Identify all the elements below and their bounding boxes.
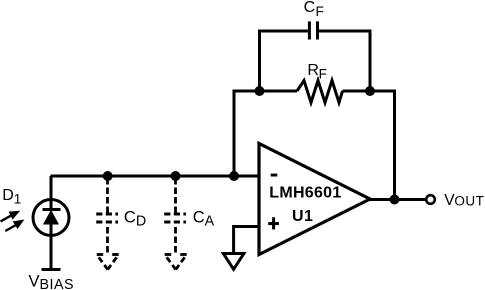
- op-amp inverting input symbol (minus): [271, 174, 278, 177]
- wire: D1 top lead: [50, 176, 53, 209]
- wire: D1 bottom lead to VBIAS terminal: [50, 224, 53, 268]
- ground symbol (open triangle): [223, 254, 244, 270]
- svg-text:F: F: [316, 4, 324, 19]
- wire: op-amp output: [368, 198, 426, 201]
- svg-text:F: F: [319, 66, 327, 81]
- junction: RF/CF left: [255, 86, 265, 96]
- terminal bar VBIAS: [42, 268, 61, 271]
- ground arrow (dashed) for CA: [165, 255, 187, 270]
- capacitor CF: [309, 21, 317, 39]
- junction: RF/CF right: [365, 86, 375, 96]
- svg-text:U1: U1: [292, 208, 313, 225]
- capacitor CD (dashed parasitic): [96, 178, 118, 253]
- svg-text:C: C: [304, 0, 316, 16]
- junction: CD tap: [103, 171, 113, 181]
- wire: main input net from D1 to op-amp inverting input: [51, 175, 261, 178]
- capacitor CA (dashed parasitic): [164, 178, 186, 253]
- junction: feedback tap at inverting input: [229, 171, 239, 181]
- wire: CF right branch: [319, 31, 370, 91]
- op-amp non-inverting input symbol (plus): [268, 217, 279, 229]
- terminal VOUT (open circle): [426, 195, 435, 204]
- wire: feedback tap up and RF left segment: [234, 91, 297, 176]
- svg-text:R: R: [307, 62, 319, 79]
- photodiode D1: [1, 200, 70, 236]
- svg-text:OUT: OUT: [454, 194, 484, 209]
- svg-text:LMH6601: LMH6601: [269, 184, 341, 201]
- junction: CA tap: [171, 171, 181, 181]
- op-amp U1: [259, 144, 370, 255]
- junction: output node: [390, 195, 400, 205]
- wire: RF right to output node: [343, 91, 395, 200]
- ground arrow (dashed) for CD: [97, 255, 119, 270]
- wire: non-inverting input to ground: [234, 227, 260, 253]
- wire: CF left branch: [260, 31, 308, 91]
- resistor RF: [297, 81, 343, 103]
